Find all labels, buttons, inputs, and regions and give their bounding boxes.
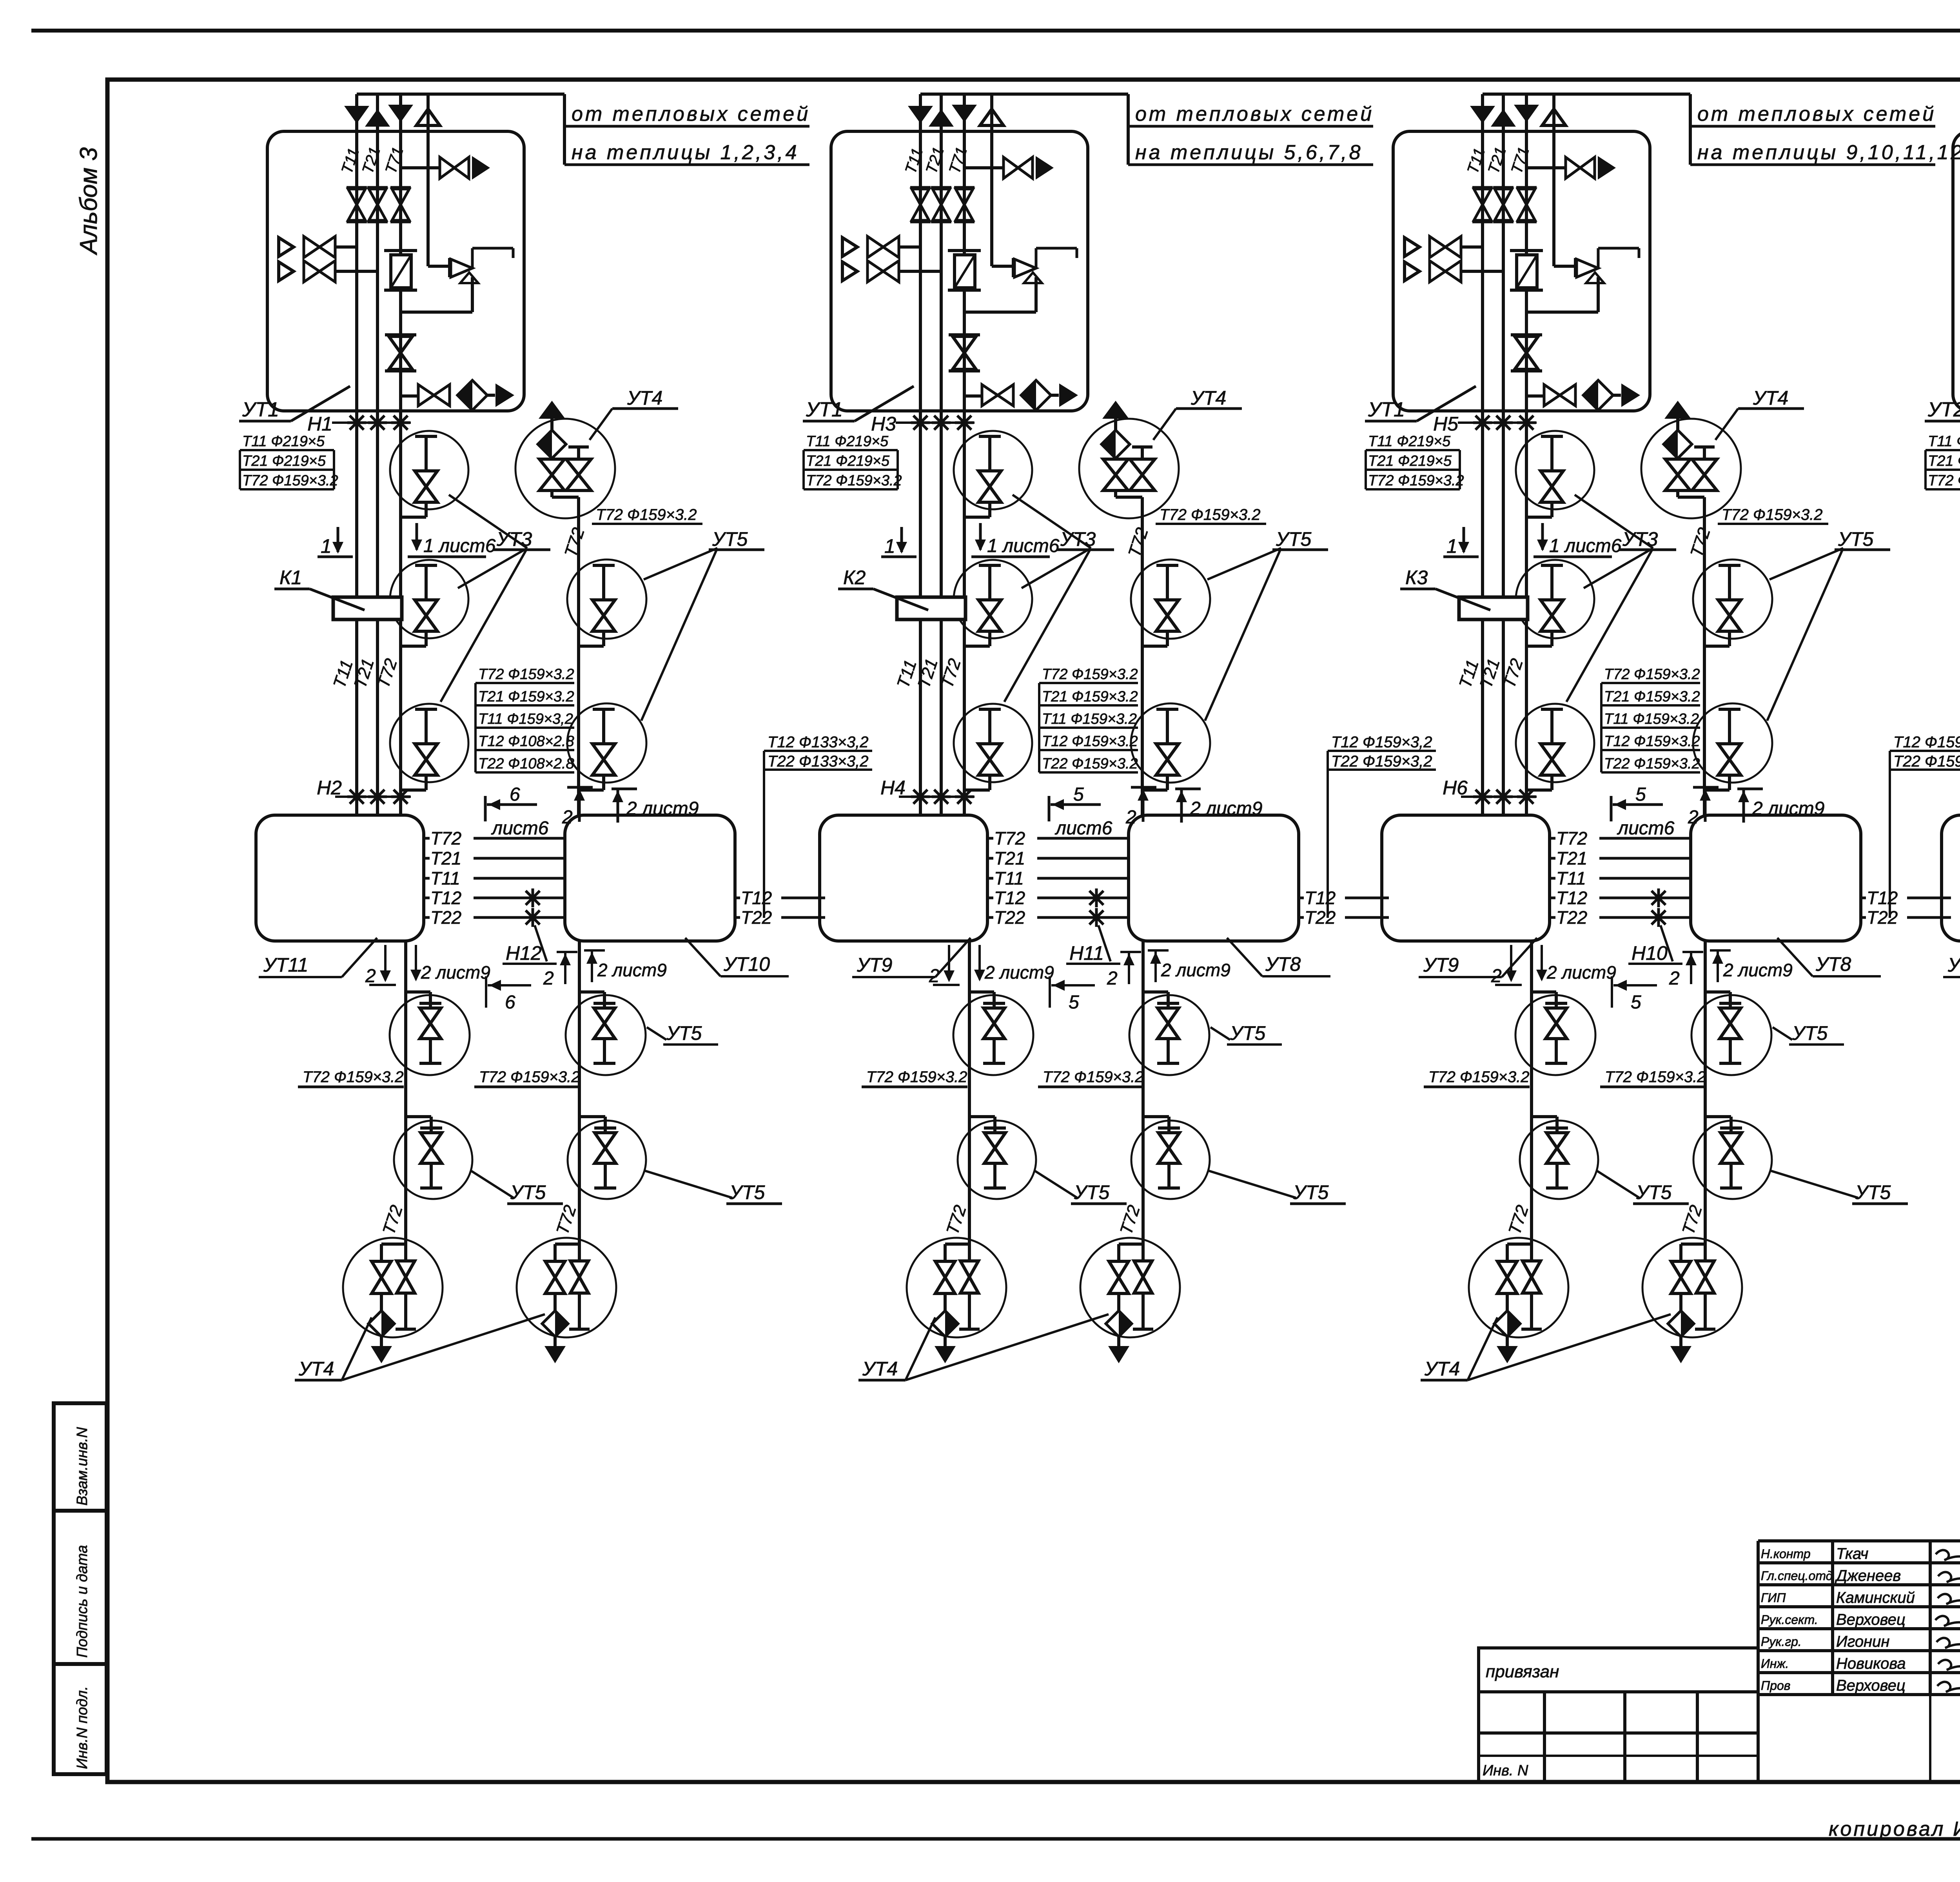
svg-text:на теплицы 5,6,7,8: на теплицы 5,6,7,8 [1135,141,1363,164]
svg-text:Н4: Н4 [880,777,906,799]
svg-text:от тепловых сетей: от тепловых сетей [572,103,810,125]
svg-text:Т72 Ф159×3.2: Т72 Ф159×3.2 [866,1068,967,1086]
svg-text:Н2: Н2 [317,777,342,799]
svg-text:Т21 Ф219×5: Т21 Ф219×5 [806,453,890,469]
svg-text:Т12 Ф159×3.2: Т12 Ф159×3.2 [1042,733,1138,750]
svg-text:УТ5: УТ5 [1276,528,1312,550]
svg-text:Т21 Ф273×5: Т21 Ф273×5 [1928,453,1960,469]
svg-text:Т22 Ф133×3,2: Т22 Ф133×3,2 [768,753,869,770]
svg-text:Н3: Н3 [871,413,896,435]
svg-text:1 лист6: 1 лист6 [987,536,1060,556]
svg-text:Взам.инв.N: Взам.инв.N [74,1427,91,1506]
svg-text:2 лист9: 2 лист9 [1161,960,1230,980]
svg-text:Т12 Ф108×2.8: Т12 Ф108×2.8 [478,733,574,750]
svg-text:Т12 Ф159×3,2: Т12 Ф159×3,2 [1331,734,1432,751]
svg-text:Т12: Т12 [430,888,461,908]
svg-text:Т12 Ф159×3,2: Т12 Ф159×3,2 [1893,734,1960,751]
svg-text:привязан: привязан [1486,1662,1559,1681]
svg-text:5: 5 [1631,992,1641,1013]
svg-text:Т72 Ф159×3.2: Т72 Ф159×3.2 [303,1068,404,1086]
svg-text:Т72: Т72 [994,828,1025,848]
svg-text:Т12: Т12 [1305,888,1336,908]
svg-text:Т22: Т22 [1305,907,1336,928]
svg-text:Т21: Т21 [994,848,1025,868]
svg-text:Т11 Ф219×5: Т11 Ф219×5 [242,433,325,450]
svg-text:Т72: Т72 [1556,828,1587,848]
svg-text:УТ4: УТ4 [627,387,662,409]
svg-text:Т12: Т12 [741,888,772,908]
svg-text:УТ1: УТ1 [806,398,843,421]
svg-text:УТ1: УТ1 [1368,398,1405,421]
svg-text:К2: К2 [843,567,866,589]
svg-text:1: 1 [1446,535,1457,557]
svg-text:2: 2 [543,968,554,989]
svg-text:Н.контр: Н.контр [1761,1547,1811,1561]
svg-text:Т21 Ф159×3.2: Т21 Ф159×3.2 [478,688,574,705]
svg-text:Верховец: Верховец [1836,1611,1906,1628]
svg-text:Н1: Н1 [307,413,332,435]
svg-text:6: 6 [510,784,520,805]
svg-text:Т11: Т11 [430,868,460,888]
svg-text:Т22: Т22 [1556,907,1587,928]
svg-text:УТ4: УТ4 [862,1358,898,1380]
svg-text:Н12: Н12 [506,942,542,964]
svg-text:Альбом 3: Альбом 3 [75,147,102,256]
svg-text:УТ5: УТ5 [1636,1181,1672,1203]
svg-text:Ткач: Ткач [1836,1545,1868,1562]
svg-text:2 лист9: 2 лист9 [421,962,490,983]
svg-text:УТ8: УТ8 [1815,953,1851,975]
svg-text:2 лист9: 2 лист9 [1723,960,1793,980]
svg-text:К3: К3 [1405,567,1428,589]
svg-text:2 лист9: 2 лист9 [597,960,667,980]
svg-text:Т72 Ф159×3.2: Т72 Ф159×3.2 [1722,506,1823,523]
svg-text:Рук.сект.: Рук.сект. [1761,1613,1818,1627]
svg-text:Т21 Ф219×5: Т21 Ф219×5 [242,453,326,469]
svg-text:УТ5: УТ5 [712,528,748,550]
svg-text:УТ5: УТ5 [1074,1181,1110,1203]
svg-text:УТ7: УТ7 [1947,954,1960,976]
svg-text:Т72 Ф159×3.2: Т72 Ф159×3.2 [1043,1068,1144,1086]
svg-text:Игонин: Игонин [1836,1633,1889,1650]
svg-text:УТ4: УТ4 [1424,1358,1460,1380]
svg-text:6: 6 [505,992,515,1013]
svg-text:Рук.гр.: Рук.гр. [1761,1635,1802,1649]
svg-text:Подпись и дата: Подпись и дата [74,1545,91,1658]
svg-text:Инж.: Инж. [1761,1657,1789,1671]
svg-text:Т22 Ф159×3,2: Т22 Ф159×3,2 [1893,753,1960,770]
svg-text:на теплицы 1,2,3,4: на теплицы 1,2,3,4 [572,141,799,164]
svg-text:Т72 Ф159×3.2: Т72 Ф159×3.2 [1605,1068,1706,1086]
svg-text:Дженеев: Дженеев [1835,1567,1901,1584]
svg-text:УТ10: УТ10 [723,953,770,975]
svg-text:УТ5: УТ5 [1230,1022,1266,1044]
svg-text:УТ5: УТ5 [1855,1181,1891,1203]
svg-text:1 лист6: 1 лист6 [423,536,496,556]
svg-text:УТ8: УТ8 [1265,953,1301,975]
svg-text:Т11 Ф219×5: Т11 Ф219×5 [806,433,889,450]
svg-text:Т72 Ф159×3.2: Т72 Ф159×3.2 [1428,1068,1530,1086]
svg-text:Н10: Н10 [1632,942,1668,964]
svg-text:Т72 Ф159×3.2: Т72 Ф159×3.2 [1368,472,1464,489]
svg-text:Т22: Т22 [994,907,1025,928]
svg-text:Т72 Ф159×3.2: Т72 Ф159×3.2 [242,472,338,489]
svg-text:Т72: Т72 [430,828,461,848]
svg-text:Т21 Ф219×5: Т21 Ф219×5 [1368,453,1452,469]
svg-text:от тепловых сетей: от тепловых сетей [1135,103,1374,125]
svg-text:УТ5: УТ5 [666,1022,702,1044]
svg-text:2: 2 [929,966,940,986]
svg-text:Т22: Т22 [1867,907,1898,928]
svg-text:Т11: Т11 [994,868,1024,888]
svg-text:Т12: Т12 [1556,888,1587,908]
svg-text:Т72 Ф159×3.2: Т72 Ф159×3.2 [1160,506,1261,523]
svg-text:Т22: Т22 [741,907,772,928]
svg-text:Т21 Ф159×3.2: Т21 Ф159×3.2 [1042,688,1138,705]
svg-text:УТ4: УТ4 [1191,387,1226,409]
svg-text:Т72 Ф159×3.2: Т72 Ф159×3.2 [479,1068,580,1086]
svg-text:УТ4: УТ4 [298,1358,334,1380]
svg-text:Т72 Ф159×3.2: Т72 Ф159×3.2 [806,472,902,489]
svg-text:2: 2 [1107,968,1118,989]
svg-text:Т12: Т12 [994,888,1025,908]
svg-text:УТ5: УТ5 [1792,1022,1828,1044]
svg-text:1: 1 [321,535,332,557]
svg-text:Пров: Пров [1761,1679,1790,1693]
svg-text:УТ5: УТ5 [510,1181,546,1203]
svg-text:Т72 Ф159×3.2: Т72 Ф159×3.2 [1042,666,1138,683]
svg-text:УТ5: УТ5 [1293,1181,1329,1203]
svg-text:Т22 Ф108×2.8: Т22 Ф108×2.8 [478,756,574,772]
svg-text:УТ4: УТ4 [1753,387,1788,409]
svg-text:УТ9: УТ9 [857,954,892,976]
svg-text:Т21: Т21 [1556,848,1587,868]
svg-text:Т22 Ф159×3.2: Т22 Ф159×3.2 [1604,756,1700,772]
svg-text:Т72 Ф159×3.2: Т72 Ф159×3.2 [596,506,697,523]
svg-text:Т11 Ф159×3.2: Т11 Ф159×3.2 [1604,711,1699,727]
svg-text:Т72 Ф159×3.2: Т72 Ф159×3.2 [1604,666,1700,683]
svg-text:Н6: Н6 [1443,777,1468,799]
svg-text:2: 2 [365,966,376,986]
svg-text:УТ1: УТ1 [242,398,279,421]
svg-text:Т21: Т21 [430,848,461,868]
svg-text:Верховец: Верховец [1836,1677,1906,1694]
svg-text:Т11 Ф159×3,2: Т11 Ф159×3,2 [478,711,573,727]
svg-text:ГИП: ГИП [1761,1591,1786,1605]
svg-text:Т12 Ф159×3.2: Т12 Ф159×3.2 [1604,733,1700,750]
svg-text:2 лист9: 2 лист9 [984,962,1054,983]
svg-text:Т22: Т22 [430,907,461,928]
svg-text:УТ5: УТ5 [1838,528,1874,550]
svg-text:лист6: лист6 [1054,818,1112,839]
svg-text:Н5: Н5 [1433,413,1458,435]
svg-text:Т11 Ф159×3.2: Т11 Ф159×3.2 [1042,711,1137,727]
svg-text:Т11 Ф219×5: Т11 Ф219×5 [1368,433,1451,450]
svg-text:Т11: Т11 [1556,868,1586,888]
svg-text:Т22 Ф159×3.2: Т22 Ф159×3.2 [1042,756,1138,772]
svg-text:Т12: Т12 [1867,888,1898,908]
svg-text:Т22 Ф159×3,2: Т22 Ф159×3,2 [1331,753,1432,770]
svg-text:УТ5: УТ5 [729,1181,765,1203]
svg-text:Т72 Ф159×3,2: Т72 Ф159×3,2 [1928,472,1960,489]
svg-text:1: 1 [884,535,895,557]
svg-text:Т12 Ф133×3,2: Т12 Ф133×3,2 [768,734,869,751]
svg-text:Новикова: Новикова [1836,1655,1906,1672]
svg-text:Т11 Ф273×5: Т11 Ф273×5 [1928,433,1960,450]
svg-text:1 лист6: 1 лист6 [1549,536,1622,556]
svg-text:Гл.спец.отд: Гл.спец.отд [1761,1569,1833,1583]
svg-text:УТ11: УТ11 [263,954,308,976]
svg-text:УТ9: УТ9 [1423,954,1459,976]
svg-text:Инв. N: Инв. N [1483,1762,1528,1779]
svg-text:на теплицы 9,10,11,12: на теплицы 9,10,11,12 [1697,141,1960,164]
svg-text:Каминский: Каминский [1836,1589,1915,1606]
svg-text:2: 2 [1491,966,1502,986]
svg-text:2: 2 [1669,968,1680,989]
svg-text:Т21 Ф159×3.2: Т21 Ф159×3.2 [1604,688,1700,705]
svg-text:5: 5 [1073,784,1084,805]
svg-text:лист6: лист6 [1617,818,1675,839]
svg-text:УТ2: УТ2 [1927,398,1960,421]
svg-text:5: 5 [1635,784,1646,805]
svg-text:Т72 Ф159×3.2: Т72 Ф159×3.2 [478,666,574,683]
svg-text:от тепловых сетей: от тепловых сетей [1697,103,1936,125]
svg-text:Н11: Н11 [1069,942,1104,964]
svg-text:5: 5 [1069,992,1079,1013]
svg-text:2 лист9: 2 лист9 [1546,962,1616,983]
svg-text:К1: К1 [279,567,302,589]
svg-text:копировал Иноземцева: копировал Иноземцева [1829,1818,1960,1840]
svg-text:лист6: лист6 [491,818,549,839]
svg-text:Инв.N подл.: Инв.N подл. [74,1686,91,1769]
